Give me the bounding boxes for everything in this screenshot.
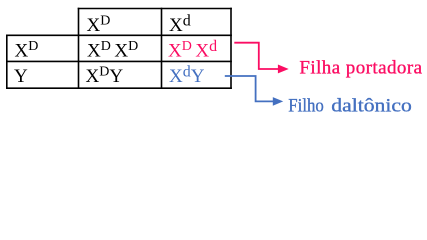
pink arrow to Filha portadora [234, 43, 278, 69]
blue arrow to Filho daltonico [225, 76, 273, 101]
wire col2/col3 divider [161, 8, 163, 89]
wire divider row1/row2 [6, 34, 232, 36]
svg-text:Filhodaltônico: Filhodaltônico [288, 95, 412, 116]
wire top border [78, 8, 232, 10]
svg-text:Y: Y [14, 66, 28, 87]
blue arrowhead [273, 97, 283, 106]
svg-text:Filha portadora: Filha portadora [299, 57, 422, 78]
wire bottom border [6, 87, 232, 89]
svg-text:XD: XD [15, 39, 39, 62]
svg-text:XDY: XDY [86, 65, 124, 88]
pink arrowhead [278, 65, 289, 74]
table grid: top border of header row [6, 8, 232, 89]
wire right border [230, 8, 232, 89]
svg-text:Xd: Xd [169, 12, 191, 36]
wire col1/col2 divider [78, 8, 80, 89]
svg-text:XD XD: XD XD [87, 39, 138, 62]
wire left border [6, 35, 8, 90]
punnett square diagram [0, 0, 427, 130]
svg-text:XdY: XdY [169, 64, 205, 88]
svg-text:XD: XD [87, 13, 111, 36]
wire divider row2/row3 [6, 60, 232, 62]
svg-text:XD Xd: XD Xd [168, 38, 217, 62]
